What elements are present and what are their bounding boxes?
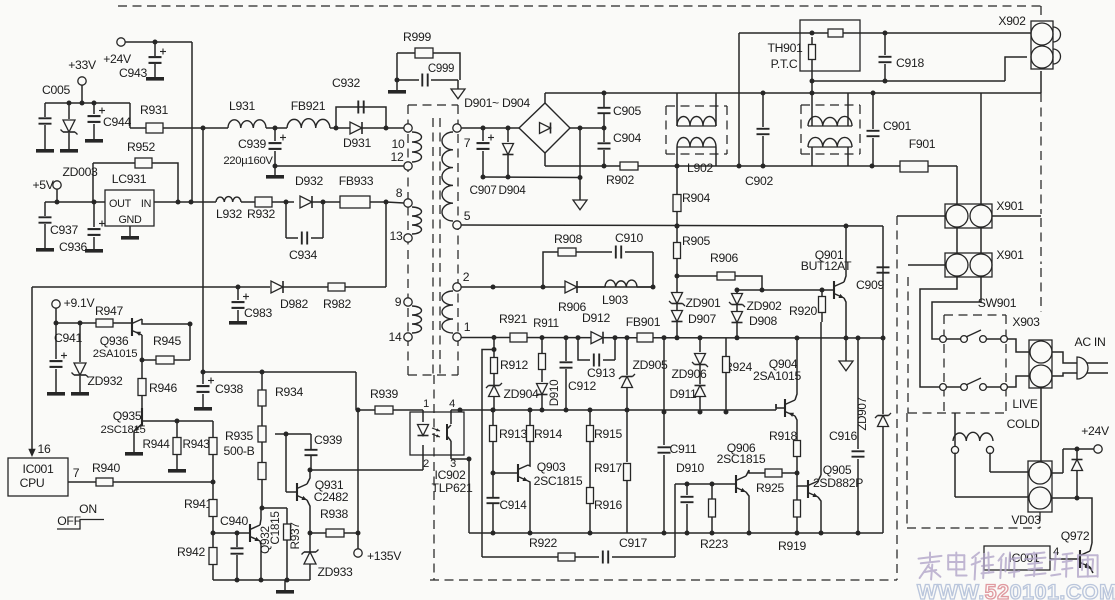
svg-text:C1815: C1815 — [268, 511, 282, 545]
svg-text:1: 1 — [464, 320, 471, 334]
chassis triangle at C999 — [451, 80, 465, 99]
svg-text:R919: R919 — [778, 539, 806, 553]
svg-text:R943: R943 — [182, 437, 210, 451]
wire Q932 collector node — [261, 507, 287, 509]
svg-text:WWW.520101.COM: WWW.520101.COM — [917, 580, 1115, 600]
svg-text:TLP621: TLP621 — [432, 481, 473, 495]
TH901 PTC element — [809, 37, 816, 93]
svg-text:ON: ON — [79, 502, 97, 516]
IC001 box (right) — [984, 546, 1080, 570]
svg-text:C911: C911 — [669, 442, 697, 456]
thermistor TH901 P.T.C box — [767, 20, 860, 71]
svg-text:C909: C909 — [856, 278, 884, 292]
svg-text:+5V: +5V — [32, 178, 54, 192]
svg-text:R925: R925 — [756, 481, 784, 495]
transistor Q936 2SA1015 — [93, 318, 193, 360]
svg-text:16: 16 — [38, 442, 51, 456]
svg-text:D931: D931 — [343, 136, 371, 150]
svg-text:R946: R946 — [149, 381, 177, 395]
svg-text:Q972: Q972 — [1061, 529, 1090, 543]
diode D904 (vertical) — [498, 128, 526, 197]
transistor Q972 — [1061, 529, 1093, 573]
resistor R916 — [587, 488, 623, 536]
svg-text:COLD: COLD — [1007, 417, 1040, 431]
svg-text:AC IN: AC IN — [1074, 335, 1105, 349]
svg-text:C910: C910 — [615, 231, 643, 245]
svg-text:R941: R941 — [184, 497, 212, 511]
svg-text:R905: R905 — [682, 234, 710, 248]
svg-text:220µ160V: 220µ160V — [223, 155, 273, 167]
svg-text:LC931: LC931 — [112, 172, 147, 186]
resistor R902 — [606, 162, 638, 187]
svg-text:ZD933: ZD933 — [317, 565, 353, 579]
svg-text:X903: X903 — [1012, 315, 1040, 329]
svg-text:+24V: +24V — [103, 52, 132, 66]
capacitor C912 — [560, 335, 597, 412]
svg-text:C936: C936 — [59, 240, 87, 254]
svg-text:L903: L903 — [602, 293, 628, 307]
transformer pin 14 — [389, 330, 413, 344]
wire AC bottom bus — [545, 153, 900, 169]
wire bus rise to Q904 base — [775, 404, 777, 410]
svg-text:10: 10 — [392, 137, 405, 151]
capacitor C905 — [598, 93, 642, 128]
resistor R924 — [723, 338, 753, 415]
svg-text:R932: R932 — [247, 207, 275, 221]
resistor R919 — [778, 486, 806, 553]
transistor Q905 2SD882P — [797, 463, 863, 536]
svg-text:9: 9 — [395, 295, 402, 309]
label R940 — [92, 461, 120, 475]
wire +33V rail — [45, 85, 130, 128]
svg-text:R917: R917 — [594, 461, 622, 475]
svg-text:C944: C944 — [103, 115, 131, 129]
diode D931 — [340, 122, 404, 150]
resistor R982 — [283, 283, 386, 311]
transistor Q935 2SC1815 — [100, 408, 179, 456]
wire switch to X903 — [1007, 339, 1029, 387]
transformer pin 13 — [390, 229, 413, 243]
resistor R937 — [284, 508, 303, 583]
svg-text:7: 7 — [73, 466, 80, 480]
transformer pin 12 — [391, 150, 413, 170]
resistor R943 — [182, 421, 217, 485]
svg-text:C917: C917 — [619, 536, 647, 550]
svg-text:13: 13 — [390, 229, 403, 243]
svg-text:D904: D904 — [498, 183, 526, 197]
svg-text:R904: R904 — [682, 191, 710, 205]
svg-text:R934: R934 — [275, 385, 303, 399]
wire C939 node to pin 12 — [275, 165, 404, 167]
ground for R999 C999 — [388, 80, 406, 94]
svg-text:8: 8 — [396, 186, 403, 200]
svg-text:1: 1 — [423, 398, 429, 410]
svg-text:ZD904: ZD904 — [503, 387, 539, 401]
capacitor C934 — [286, 202, 323, 262]
wire X901 lower right pin to switch row1 — [932, 277, 981, 339]
label Q932 C1815 vertical — [258, 511, 282, 554]
svg-text:5: 5 — [464, 209, 471, 223]
resistor R908 — [543, 232, 612, 287]
svg-text:R939: R939 — [370, 387, 398, 401]
capacitor C917 — [603, 536, 675, 564]
resistor R906 (horizontal) — [677, 251, 765, 293]
wires between X901 connectors — [957, 228, 981, 253]
winding 9-14 — [412, 306, 422, 333]
inductor L932 — [216, 197, 255, 221]
svg-text:OFF: OFF — [57, 514, 80, 528]
top dashed isolation boundary — [118, 5, 1041, 7]
capacitor C939 220u160V — [223, 128, 286, 169]
zener ZD901 — [669, 276, 721, 310]
capacitor C909 — [856, 226, 889, 341]
svg-text:C918: C918 — [896, 56, 924, 70]
svg-text:R913: R913 — [499, 427, 527, 441]
svg-text:+24V: +24V — [1081, 424, 1110, 438]
wire X901 upper left stub — [897, 215, 946, 217]
svg-text:X901: X901 — [996, 199, 1024, 213]
svg-text:C937: C937 — [50, 223, 78, 237]
svg-text:C934: C934 — [289, 248, 317, 262]
svg-text:D901~ D904: D901~ D904 — [464, 96, 530, 110]
svg-text:14: 14 — [389, 330, 402, 344]
TH901 series resistor — [739, 29, 888, 37]
svg-text:R911: R911 — [533, 317, 559, 330]
transformer pin 8 — [396, 186, 412, 207]
svg-text:2: 2 — [423, 458, 429, 470]
ferrite bead FB921 — [287, 99, 340, 128]
capacitor C904 — [598, 128, 642, 166]
connector VD03 — [1011, 461, 1052, 527]
wire AC top bus — [545, 91, 1041, 104]
svg-text:R944: R944 — [142, 437, 170, 451]
resistor R945 — [140, 334, 191, 364]
diode R906 (D906) — [558, 281, 586, 314]
svg-text:R902: R902 — [606, 173, 634, 187]
resistor R915 — [587, 410, 623, 487]
svg-text:R223: R223 — [700, 537, 728, 551]
svg-text:IC001: IC001 — [22, 462, 54, 476]
svg-text:FB933: FB933 — [339, 174, 374, 188]
svg-text:L932: L932 — [216, 207, 242, 221]
transformer pin 5 — [453, 209, 471, 229]
resistor R941 — [184, 482, 217, 536]
wire X903 to VD03 — [1040, 388, 1042, 461]
svg-text:C939: C939 — [238, 137, 266, 151]
connector X903 — [1012, 315, 1052, 388]
svg-text:F901: F901 — [909, 137, 936, 151]
wire X901 lower left pin to switch row2 — [920, 277, 957, 387]
svg-text:GND: GND — [118, 214, 142, 226]
resistor R914 — [527, 410, 563, 459]
AC plug — [1052, 335, 1108, 379]
svg-text:R945: R945 — [153, 334, 181, 348]
svg-text:R908: R908 — [554, 232, 582, 246]
transformer pin 9 — [395, 295, 412, 309]
capacitor C999 — [395, 63, 459, 87]
svg-text:C983: C983 — [244, 306, 272, 320]
dashed boundary x908 — [907, 277, 909, 413]
svg-text:X902: X902 — [998, 14, 1026, 28]
wire pin2 bus — [461, 285, 656, 290]
wire Q936 collector rail — [189, 324, 191, 360]
svg-text:CPU: CPU — [20, 476, 45, 490]
svg-text:D911: D911 — [669, 387, 697, 401]
svg-text:R922: R922 — [529, 536, 557, 550]
svg-text:R982: R982 — [323, 297, 351, 311]
connector X902 — [998, 14, 1060, 69]
resistor R920 — [789, 290, 825, 322]
resistor R932 — [247, 197, 294, 221]
wire degauss to VD03 — [955, 453, 1028, 498]
svg-text:ZD907: ZD907 — [856, 397, 869, 430]
wire bridge right vertex — [570, 126, 607, 178]
wire 16V rail — [32, 285, 270, 290]
svg-text:C912: C912 — [568, 379, 596, 393]
svg-text:R952: R952 — [127, 140, 155, 154]
wire +135V node — [356, 408, 361, 550]
winding 8-13 — [412, 207, 422, 234]
hot ground triangle Q901 — [839, 338, 853, 371]
transistor Q932 C1815 — [250, 508, 264, 583]
capacitor under D910 — [675, 482, 725, 536]
resistor R999 — [397, 30, 460, 80]
svg-text:R942: R942 — [177, 545, 205, 559]
resistor R904 — [673, 166, 710, 229]
wire Q931 collector to opto pin2 — [310, 455, 423, 470]
svg-text:C907: C907 — [469, 183, 496, 197]
svg-text:D908: D908 — [749, 314, 777, 328]
wire VD03 top to +24V line — [1052, 449, 1063, 473]
svg-text:Q903: Q903 — [537, 460, 566, 474]
svg-text:C2482: C2482 — [314, 490, 349, 504]
wire +5V node — [45, 189, 105, 205]
node C939 — [266, 126, 287, 131]
capacitor C911 — [658, 412, 698, 536]
resistor R935 500-B upper — [223, 406, 266, 458]
zener ZD932 — [71, 323, 123, 396]
dashed cold enclosure — [907, 413, 1040, 528]
svg-text:IC902: IC902 — [434, 468, 466, 482]
transistor Q906 2SC1815 — [717, 441, 766, 536]
diode D910 (vertical) — [537, 370, 562, 413]
svg-text:R999: R999 — [403, 30, 431, 44]
resistor R944 — [142, 421, 186, 473]
svg-text:R912: R912 — [500, 358, 528, 372]
svg-text:R915: R915 — [594, 427, 622, 441]
dashed bottom boundary — [430, 579, 897, 581]
wire opto pin3 down — [451, 455, 472, 533]
svg-text:Q905: Q905 — [823, 463, 852, 477]
inductor L931 — [228, 99, 266, 128]
CPU pin 7 and R940 — [68, 466, 213, 486]
resistor R922 — [482, 536, 599, 561]
transformer pin 10 — [392, 124, 413, 151]
wire R922 feed down — [482, 350, 494, 558]
wire pin5 bus — [461, 224, 883, 229]
resistor R911 — [533, 317, 559, 370]
svg-text:C913: C913 — [587, 366, 615, 380]
svg-text:D932: D932 — [295, 174, 323, 188]
capacitor C902 — [745, 93, 773, 188]
svg-text:C932: C932 — [332, 76, 360, 90]
svg-text:Q936: Q936 — [100, 334, 129, 348]
svg-text:2SC1815: 2SC1815 — [717, 452, 766, 466]
capacitor C941 — [47, 323, 82, 396]
pin 16 arrow into CPU — [28, 287, 51, 457]
svg-text:SW901: SW901 — [978, 296, 1017, 310]
svg-text:R914: R914 — [534, 427, 562, 441]
transformer T901 dashed box — [408, 105, 458, 375]
svg-text:D910: D910 — [676, 461, 704, 475]
wire opto pin4 bus — [451, 408, 776, 413]
transistor Q901 BUT12AT — [801, 226, 852, 338]
zener ZD906 — [671, 338, 708, 381]
diode D912 — [582, 311, 610, 344]
svg-text:VD03: VD03 — [1011, 513, 1041, 527]
svg-text:X901: X901 — [996, 248, 1024, 262]
capacitor C983 — [229, 287, 272, 325]
resistor R913 — [490, 410, 528, 476]
diode D932 — [284, 174, 341, 208]
terminal +5V — [32, 178, 61, 192]
transformer pin 2 — [453, 270, 470, 291]
capacitor C937 — [36, 202, 78, 252]
switch SW901 pole 1 — [940, 330, 1008, 342]
diode label D910 (second) — [676, 461, 704, 475]
terminal +24V (right) — [1063, 424, 1110, 453]
wire X902 top bus — [885, 32, 1031, 34]
connector X901 lower — [945, 248, 1024, 277]
wire pin7 bus — [461, 126, 519, 131]
terminal +24V — [103, 38, 132, 66]
svg-text:FB901: FB901 — [626, 315, 661, 329]
wire pin1 output bus — [461, 335, 883, 341]
capacitor C913 — [578, 338, 615, 380]
wire Q932 base node — [213, 531, 250, 536]
svg-text:BUT12AT: BUT12AT — [801, 259, 852, 273]
transformer pin 7 — [453, 124, 471, 150]
capacitor C910 — [615, 231, 653, 287]
choke windings (second) — [808, 93, 852, 166]
svg-text:C005: C005 — [42, 83, 70, 97]
wire DC minus bus — [483, 175, 583, 180]
svg-text:2SC1815: 2SC1815 — [100, 424, 145, 436]
wire C911 column upper — [662, 338, 667, 415]
svg-text:R916: R916 — [594, 498, 622, 512]
LIVE COLD labels — [1007, 397, 1040, 431]
resistor R921 — [499, 312, 527, 342]
resistor R935 lower element — [258, 442, 266, 511]
svg-text:7: 7 — [464, 136, 471, 150]
svg-text:C943: C943 — [119, 66, 147, 80]
wire X901 lower left stub — [908, 264, 946, 266]
optocoupler IC902 TLP621 — [410, 398, 473, 495]
resistor R952 — [93, 140, 178, 202]
transformer pin 1 — [453, 320, 471, 341]
svg-text:4: 4 — [449, 398, 455, 410]
svg-text:D912: D912 — [582, 311, 610, 325]
svg-text:C904: C904 — [613, 131, 641, 145]
transformer core dashed lines — [433, 118, 440, 375]
svg-text:C940: C940 — [220, 514, 248, 528]
capacitor C940 — [220, 514, 248, 583]
watermark chinese characters (vector strokes) — [919, 553, 1098, 580]
dashed boundary through opto — [433, 375, 435, 580]
IC001 CPU box — [8, 458, 68, 496]
dashed LIVE/COLD separator — [908, 412, 1006, 414]
resistor R947 — [95, 304, 132, 327]
wire bus to X901 right pin — [980, 93, 982, 205]
svg-text:ZD905: ZD905 — [632, 358, 668, 372]
resistor R905 — [674, 226, 711, 279]
choke L902 dashed box — [666, 106, 727, 154]
svg-text:ZD901: ZD901 — [685, 296, 721, 310]
svg-text:R921: R921 — [499, 312, 527, 326]
capacitor C938 — [194, 372, 243, 411]
svg-text:Q935: Q935 — [113, 409, 142, 423]
svg-text:R940: R940 — [92, 461, 120, 475]
watermark url — [917, 580, 1115, 600]
bottom ground bus — [213, 580, 310, 594]
svg-text:C938: C938 — [215, 382, 243, 396]
zener diode ZD003 — [60, 103, 98, 179]
wire VD03 bottom — [1052, 498, 1092, 543]
switch OFF/ON — [57, 502, 104, 529]
wire Q905 collector to R920 — [820, 322, 822, 475]
capacitor C939 (opto side) — [275, 432, 342, 471]
fuse F901 — [900, 137, 957, 205]
resistor R931 — [130, 103, 228, 133]
choke L902 windings — [677, 93, 716, 175]
dashed boundary left of switch — [896, 216, 898, 580]
resistor R918 — [769, 425, 800, 473]
zener ZD907 — [856, 338, 891, 533]
resistor R938 — [310, 507, 361, 537]
resistor R912 — [491, 338, 529, 386]
inductor L903 — [577, 280, 653, 307]
svg-text:ZD932: ZD932 — [87, 374, 123, 388]
capacitor C916 — [829, 338, 864, 536]
svg-text:P.T.C: P.T.C — [771, 57, 798, 71]
ground bus (secondary low) — [469, 532, 883, 534]
wire Q901 base line — [735, 288, 827, 293]
switch SW901 pole 2 — [940, 378, 1008, 390]
svg-text:R920: R920 — [789, 304, 817, 318]
hot ground triangle — [573, 178, 587, 210]
zener ZD905 — [619, 338, 668, 413]
switch SW901 dashed box — [944, 296, 1017, 413]
wire TH901 left leg — [738, 33, 740, 166]
bridge rectifier D901-D904 — [464, 96, 570, 153]
diode D982 — [271, 281, 308, 311]
resistor R946 — [138, 360, 177, 409]
zener ZD904 — [486, 383, 539, 413]
capacitor C907 — [469, 128, 496, 197]
svg-text:+33V: +33V — [68, 58, 97, 72]
wire Q931 base from C939 node — [286, 434, 297, 492]
svg-text:12: 12 — [391, 150, 404, 164]
wire 135V bus to opto — [201, 370, 357, 411]
wire regulator IN bus — [154, 200, 216, 205]
regulator LC931 — [105, 172, 154, 226]
svg-text:C902: C902 — [745, 174, 773, 188]
wire Q935 base node — [177, 420, 213, 422]
svg-text:C905: C905 — [613, 104, 641, 118]
resistor R223 — [700, 484, 728, 551]
svg-text:R931: R931 — [140, 103, 168, 117]
svg-text:2SA1015: 2SA1015 — [93, 348, 137, 360]
